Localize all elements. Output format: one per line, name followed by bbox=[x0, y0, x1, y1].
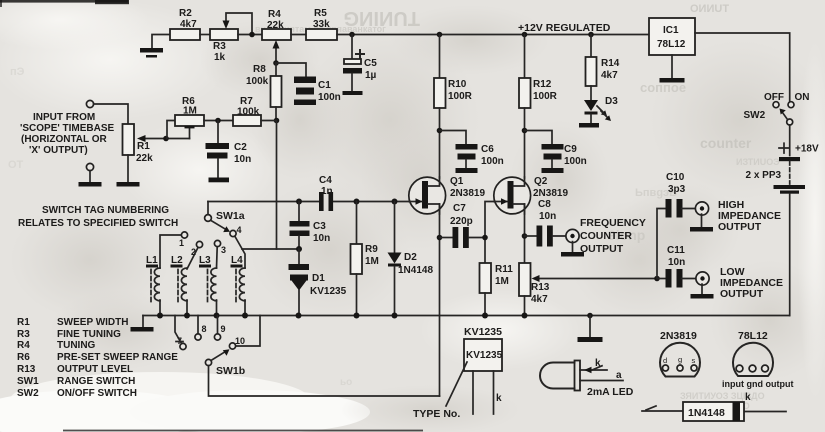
node (R3/R4 junction) bbox=[249, 32, 255, 38]
input label bbox=[20, 112, 115, 156]
svg-text:OUTPUT LEVEL: OUTPUT LEVEL bbox=[57, 364, 133, 375]
inductor L2 bbox=[171, 248, 199, 316]
wire (R7-R8 node down to tuning node) bbox=[276, 121, 278, 250]
svg-text:R7: R7 bbox=[240, 96, 253, 107]
resistor R1 (pot) bbox=[123, 124, 190, 182]
resistor R7 bbox=[233, 96, 277, 126]
svg-text:C4: C4 bbox=[319, 175, 332, 186]
wire (tank line) bbox=[208, 201, 409, 203]
svg-text:s: s bbox=[692, 356, 696, 365]
capacitor C4 bbox=[319, 175, 333, 211]
svg-text:OUTPUT: OUTPUT bbox=[718, 221, 762, 233]
svg-text:1: 1 bbox=[179, 238, 184, 248]
wire (Q2 gate riser / R11) bbox=[485, 202, 494, 264]
node (C10/C11 tap) bbox=[654, 276, 660, 282]
contact 8 bbox=[195, 316, 207, 341]
node (C7 tap) bbox=[437, 235, 443, 241]
wire bbox=[276, 63, 306, 76]
svg-text:R8: R8 bbox=[253, 64, 266, 75]
svg-text:ьо: ьо bbox=[340, 377, 352, 388]
wire bbox=[204, 120, 233, 122]
contact 1 bbox=[179, 232, 188, 248]
input terminal (top) bbox=[86, 100, 93, 107]
switch SW1b bbox=[205, 349, 439, 396]
node L3-rail bbox=[214, 313, 220, 319]
inductor L1 bbox=[146, 235, 181, 316]
wire bbox=[291, 34, 306, 36]
diode D2 1N4148 bbox=[388, 202, 434, 316]
svg-text:OUTPUT: OUTPUT bbox=[720, 288, 764, 300]
1N4148 drawing bbox=[642, 392, 786, 421]
svg-text:2N3819: 2N3819 bbox=[533, 188, 568, 199]
svg-text:Q1: Q1 bbox=[450, 176, 464, 187]
node (R10 on rail) bbox=[437, 32, 443, 38]
svg-text:'X' OUTPUT): 'X' OUTPUT) bbox=[29, 145, 88, 156]
svg-text:INPUT FROM: INPUT FROM bbox=[33, 112, 95, 123]
svg-text:R4: R4 bbox=[17, 340, 30, 351]
svg-text:10n: 10n bbox=[668, 257, 685, 268]
node (tuning junction) bbox=[296, 246, 302, 252]
svg-text:4k7: 4k7 bbox=[601, 70, 618, 81]
svg-text:KV1235: KV1235 bbox=[464, 326, 502, 338]
svg-text:PRE-SET SWEEP RANGE: PRE-SET SWEEP RANGE bbox=[57, 352, 178, 363]
svg-text:C10: C10 bbox=[666, 172, 685, 183]
node R9-rail bbox=[354, 313, 360, 319]
ground (IC1) bbox=[660, 55, 685, 83]
svg-text:R5: R5 bbox=[314, 8, 327, 19]
inductor L3 bbox=[199, 247, 217, 316]
svg-text:R4: R4 bbox=[268, 9, 281, 20]
svg-text:1N4148: 1N4148 bbox=[688, 407, 725, 419]
node R13-rail bbox=[522, 313, 528, 319]
svg-text:8: 8 bbox=[202, 324, 207, 334]
svg-text:R6: R6 bbox=[17, 352, 30, 363]
svg-text:SWEEP WIDTH: SWEEP WIDTH bbox=[57, 317, 128, 328]
svg-text:9: 9 bbox=[221, 324, 226, 334]
ground (D3) bbox=[579, 123, 599, 128]
switch tag note bbox=[18, 205, 178, 229]
svg-text:TUNING: TUNING bbox=[57, 340, 96, 351]
switch SW1a bbox=[205, 202, 245, 233]
svg-text:R14: R14 bbox=[601, 58, 620, 69]
contact 3 bbox=[214, 240, 226, 255]
resistor R13 (pot, output level) bbox=[519, 263, 657, 316]
capacitor C10 bbox=[666, 172, 697, 218]
svg-text:100n: 100n bbox=[318, 92, 341, 103]
resistor R5 bbox=[306, 8, 337, 40]
svg-text:+12V REGULATED: +12V REGULATED bbox=[518, 22, 611, 34]
svg-text:a: a bbox=[616, 370, 622, 381]
svg-text:FINE TUNING: FINE TUNING bbox=[57, 329, 121, 340]
capacitor C8 bbox=[525, 199, 568, 247]
svg-text:220p: 220p bbox=[450, 216, 473, 227]
node (R1 wiper / R6) bbox=[163, 136, 169, 142]
node L2-rail bbox=[184, 313, 190, 319]
svg-text:C2: C2 bbox=[234, 142, 247, 153]
node (R12 on rail) bbox=[522, 32, 528, 38]
svg-text:KV1235: KV1235 bbox=[310, 286, 347, 297]
capacitor C5 bbox=[343, 35, 378, 96]
frequency counter output label bbox=[580, 217, 646, 255]
2N3819 pinout bbox=[660, 330, 700, 377]
svg-text:4: 4 bbox=[237, 225, 242, 235]
svg-text:(HORIZONTAL OR: (HORIZONTAL OR bbox=[21, 134, 108, 145]
wire +12V rail bbox=[337, 34, 649, 36]
svg-text:R10: R10 bbox=[448, 79, 467, 90]
node L4-rail bbox=[242, 313, 248, 319]
terminal (high impedance output) bbox=[690, 202, 713, 232]
capacitor C3 bbox=[290, 202, 331, 250]
svg-text:C7: C7 bbox=[453, 203, 466, 214]
svg-text:k: k bbox=[745, 392, 751, 403]
svg-text:g: g bbox=[678, 355, 682, 364]
svg-text:ИЗТИUОЭ: ИЗТИUОЭ bbox=[736, 157, 780, 167]
scan artifact: bottom edge dark line bbox=[63, 430, 423, 432]
svg-text:RELATES TO SPECIFIED SWITCH: RELATES TO SPECIFIED SWITCH bbox=[18, 218, 178, 229]
svg-text:C5: C5 bbox=[364, 58, 377, 69]
svg-text:SW1b: SW1b bbox=[216, 365, 245, 377]
inductor L4 bbox=[231, 237, 246, 316]
svg-text:3p3: 3p3 bbox=[668, 184, 686, 195]
svg-text:R13: R13 bbox=[17, 364, 36, 375]
svg-text:TYPE No.: TYPE No. bbox=[413, 408, 460, 420]
svg-text:2 x PP3: 2 x PP3 bbox=[746, 170, 782, 181]
svg-text:SW2: SW2 bbox=[17, 388, 39, 399]
svg-text:ОИИUТ: ОИИUТ bbox=[690, 3, 729, 15]
input terminal (bottom) bbox=[79, 163, 102, 186]
contact 9 bbox=[214, 316, 225, 341]
node (C3 tap) bbox=[296, 199, 302, 205]
svg-text:10n: 10n bbox=[539, 211, 556, 222]
resistor R10 bbox=[434, 35, 473, 179]
svg-text:1k: 1k bbox=[214, 52, 226, 63]
resistor R14 bbox=[586, 35, 620, 101]
svg-text:+18V: +18V bbox=[795, 144, 819, 155]
svg-text:100R: 100R bbox=[448, 91, 473, 102]
svg-text:SW1: SW1 bbox=[17, 376, 39, 387]
varicap D1 KV1235 bbox=[289, 249, 347, 316]
resistor R12 bbox=[519, 35, 558, 179]
node D1-rail bbox=[296, 313, 302, 319]
wire (to C10) bbox=[657, 209, 666, 279]
svg-text:d: d bbox=[663, 356, 667, 365]
capacitor C9 bbox=[525, 131, 587, 174]
resistor R3 (preset pot) bbox=[210, 13, 252, 63]
LED drawing (2mA LED) bbox=[540, 358, 634, 398]
wire (tuning node horizontal) bbox=[242, 248, 299, 250]
svg-text:ОТ: ОТ bbox=[8, 159, 24, 171]
wire (Q2 source column) bbox=[524, 204, 526, 263]
svg-text:FREQUENCY: FREQUENCY bbox=[580, 217, 646, 229]
battery 2 x PP3 bbox=[746, 157, 806, 316]
svg-text:COUNTER: COUNTER bbox=[580, 230, 632, 242]
svg-text:R13: R13 bbox=[531, 282, 550, 293]
KV1235 package bbox=[413, 326, 503, 420]
svg-text:1n: 1n bbox=[321, 186, 333, 197]
node (C6 tap) bbox=[437, 128, 443, 134]
svg-text:2N3819: 2N3819 bbox=[660, 330, 697, 342]
resistor R9 bbox=[351, 202, 379, 316]
svg-text:C11: C11 bbox=[667, 245, 685, 256]
transistor Q1 2N3819 bbox=[409, 176, 486, 214]
svg-text:D1: D1 bbox=[312, 273, 325, 284]
svg-text:counter: counter bbox=[700, 135, 752, 151]
node (R7/R8) bbox=[274, 118, 280, 124]
svg-text:R3: R3 bbox=[213, 41, 226, 52]
wire (SW2 to battery) bbox=[789, 125, 791, 156]
svg-text:1M: 1M bbox=[365, 256, 379, 267]
svg-text:1µ: 1µ bbox=[365, 70, 377, 81]
contact 2 bbox=[191, 241, 203, 257]
transistor Q2 2N3819 bbox=[494, 176, 569, 214]
svg-text:2: 2 bbox=[191, 247, 196, 257]
contact 7 bbox=[175, 316, 186, 350]
resistor R4 (pot) bbox=[262, 9, 291, 63]
svg-text:10n: 10n bbox=[234, 154, 251, 165]
svg-text:1M: 1M bbox=[495, 276, 509, 287]
wire (ground rail) bbox=[143, 315, 790, 317]
node (R6/R7/C2) bbox=[215, 118, 221, 124]
svg-text:R1: R1 bbox=[17, 317, 30, 328]
svg-text:L4: L4 bbox=[231, 255, 243, 266]
svg-text:SW1a: SW1a bbox=[216, 210, 245, 222]
resistor R2 bbox=[170, 8, 200, 40]
svg-text:L2: L2 bbox=[171, 255, 183, 266]
terminal (low impedance output) bbox=[691, 272, 714, 299]
svg-text:R9: R9 bbox=[365, 244, 378, 255]
svg-text:ЗЯИТИУОЗ ЗЦІЗДО: ЗЯИТИУОЗ ЗЦІЗДО bbox=[680, 391, 765, 401]
svg-text:1M: 1M bbox=[183, 106, 197, 117]
node (R4 wiper / R8) bbox=[273, 60, 279, 66]
svg-text:R2: R2 bbox=[179, 8, 192, 19]
low impedance label bbox=[720, 266, 783, 300]
svg-text:78L12: 78L12 bbox=[657, 39, 686, 50]
ground (left of R2) bbox=[140, 35, 170, 58]
svg-text:ON/OFF SWITCH: ON/OFF SWITCH bbox=[57, 388, 137, 399]
high impedance label bbox=[718, 199, 781, 233]
svg-text:10n: 10n bbox=[313, 233, 330, 244]
svg-text:'SCOPE' TIMEBASE: 'SCOPE' TIMEBASE bbox=[20, 123, 115, 134]
node (D2 tap) bbox=[392, 199, 398, 205]
resistor R8 bbox=[246, 63, 282, 120]
wire bbox=[200, 34, 210, 36]
wire bbox=[94, 104, 128, 124]
svg-text:RANGE SWITCH: RANGE SWITCH bbox=[57, 376, 135, 387]
node (C5) bbox=[349, 32, 355, 38]
node R11-rail bbox=[482, 313, 488, 319]
svg-text:D3: D3 bbox=[605, 96, 618, 107]
node L1-rail bbox=[157, 313, 163, 319]
svg-text:C6: C6 bbox=[481, 144, 494, 155]
resistor R6 (preset pot) bbox=[167, 96, 204, 139]
ground (R1) bbox=[117, 182, 140, 187]
contact 4 bbox=[230, 225, 242, 237]
svg-text:2mA LED: 2mA LED bbox=[587, 386, 634, 398]
svg-text:33k: 33k bbox=[313, 19, 330, 30]
wire bbox=[238, 34, 262, 36]
svg-text:SW2: SW2 bbox=[744, 110, 766, 121]
svg-text:4k7: 4k7 bbox=[180, 19, 197, 30]
svg-text:input gnd output: input gnd output bbox=[722, 379, 793, 389]
scan artifact: top edge dark streak bbox=[0, 0, 128, 3]
node D2-rail bbox=[392, 313, 398, 319]
svg-text:10: 10 bbox=[235, 336, 245, 346]
svg-text:C8: C8 bbox=[538, 199, 551, 210]
svg-text:C1: C1 bbox=[318, 80, 331, 91]
svg-text:1N4148: 1N4148 bbox=[398, 265, 433, 276]
svg-text:100R: 100R bbox=[533, 91, 558, 102]
node (C8 tap) bbox=[522, 233, 528, 239]
svg-text:100k: 100k bbox=[237, 107, 260, 118]
svg-text:L3: L3 bbox=[199, 255, 211, 266]
IC1 78L12 bbox=[649, 18, 695, 55]
wire (Q1 source column to SW1b) bbox=[439, 204, 441, 396]
svg-text:R1: R1 bbox=[137, 141, 150, 152]
svg-text:L1: L1 bbox=[146, 255, 158, 266]
node (R9 tap) bbox=[354, 199, 360, 205]
contact 10 bbox=[229, 316, 260, 350]
terminal (frequency counter output) bbox=[561, 229, 584, 256]
svg-text:пЭ: пЭ bbox=[10, 66, 25, 78]
svg-text:IC1: IC1 bbox=[663, 25, 679, 36]
svg-text:k: k bbox=[496, 393, 502, 404]
svg-text:22k: 22k bbox=[136, 153, 153, 164]
svg-text:R12: R12 bbox=[533, 79, 552, 90]
svg-text:SWITCH TAG NUMBERING: SWITCH TAG NUMBERING bbox=[42, 205, 169, 216]
wire (IC1 out to SW2) bbox=[695, 33, 790, 101]
+18V label bbox=[779, 143, 819, 154]
svg-text:OFF: OFF bbox=[764, 92, 784, 103]
resistor R11 bbox=[480, 263, 514, 316]
capacitor C6 bbox=[440, 131, 504, 174]
capacitor C7 bbox=[440, 203, 486, 248]
capacitor C1 bbox=[294, 77, 341, 106]
svg-text:3: 3 bbox=[221, 245, 226, 255]
svg-text:C3: C3 bbox=[313, 221, 326, 232]
svg-text:C9: C9 bbox=[564, 144, 577, 155]
svg-text:78L12: 78L12 bbox=[738, 330, 768, 342]
node (C9 tap) bbox=[522, 128, 528, 134]
svg-text:D2: D2 bbox=[404, 252, 417, 263]
svg-text:ON: ON bbox=[795, 92, 810, 103]
capacitor C11 bbox=[657, 245, 697, 288]
capacitor C2 bbox=[206, 121, 252, 183]
node (R14 on rail) bbox=[588, 32, 594, 38]
svg-text:KV1235: KV1235 bbox=[466, 350, 503, 361]
svg-text:R11: R11 bbox=[495, 264, 513, 275]
switch SW2 bbox=[744, 92, 810, 125]
svg-text:Q2: Q2 bbox=[534, 176, 548, 187]
svg-text:R3: R3 bbox=[17, 329, 30, 340]
78L12 pinout bbox=[722, 330, 793, 389]
svg-text:100k: 100k bbox=[246, 76, 269, 87]
svg-text:4k7: 4k7 bbox=[531, 294, 548, 305]
svg-text:22k: 22k bbox=[267, 20, 284, 31]
ground (centre rail) bbox=[578, 313, 603, 342]
svg-text:OUTPUT: OUTPUT bbox=[580, 243, 624, 255]
svg-text:100n: 100n bbox=[564, 156, 587, 167]
svg-text:100n: 100n bbox=[481, 156, 504, 167]
LED D3 bbox=[584, 96, 618, 123]
svg-text:k: k bbox=[595, 358, 601, 369]
ground (rail left end) bbox=[131, 316, 154, 332]
svg-text:2N3819: 2N3819 bbox=[450, 188, 485, 199]
